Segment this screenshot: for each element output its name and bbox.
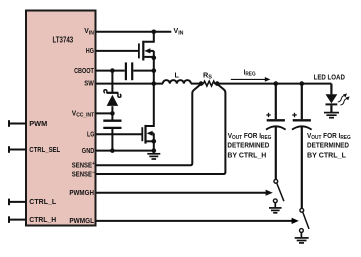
capacitor C1 bootstrap CBOOT cap [126,62,154,80]
node output cap 2 junction dot [300,81,305,86]
node VIN junction dot [152,30,157,35]
svg-text:BY CTRL_H: BY CTRL_H [227,151,266,160]
node CBOOT-diode junction dot [110,68,115,73]
node output cap 1 junction dot [274,81,279,86]
wire SW pin to inductor [96,83,164,85]
svg-text:DETERMINED: DETERMINED [307,141,350,150]
wire VCC_INT pin [96,112,113,114]
capacitor C2 VCC_INT bypass [103,113,121,150]
wire RS to output rail [217,83,331,85]
wire GND pin [96,150,154,152]
annotation VOUT FOR IREG DETERMINED BY CTRL_H [227,131,271,160]
capacitor C4 output cap (CTRL_L) [292,84,312,209]
svg-text:LG: LG [87,130,95,139]
wire SENSE+ kelvin [96,85,201,166]
svg-text:DETERMINED: DETERMINED [227,141,270,150]
svg-text:LT3743: LT3743 [53,36,74,45]
LED light emission arrows [337,92,349,103]
node C2-GND junction dot [110,148,115,153]
wire HG pin to Q1 gate [96,50,139,52]
svg-text:CTRL_H: CTRL_H [29,215,56,224]
wire LG pin to Q2 gate (crosses C2 leg) [96,133,142,135]
diode D1 bootstrap schottky [104,90,121,114]
wire CTRL_SEL input stub with tick [8,146,26,153]
switch S1 (PWMGH) [273,179,284,202]
wire CBOOT pin to capacitor C1 [96,70,125,72]
inductor L [163,80,191,84]
polarity + for C3 [266,113,270,117]
node SW junction dot [152,81,157,86]
wire PWMGL control arrow [96,218,299,224]
svg-text:PWMGH: PWMGH [69,188,94,197]
switch S2 (PWMGL) [300,208,310,232]
svg-text:BY CTRL_L: BY CTRL_L [307,151,346,160]
op-amp U1 LT3743 controller block [26,11,96,226]
node RS left kelvin dot [199,81,204,86]
svg-text:GND: GND [82,146,95,155]
node GND junction dot [152,148,157,153]
svg-text:CTRL_L: CTRL_L [29,197,56,206]
current arrow IREG [231,67,271,81]
node CBOOT rail junction dot [152,68,157,73]
svg-text:PWMGL: PWMGL [69,216,94,225]
svg-text:L: L [175,71,180,80]
ground G2 under LED [324,113,339,118]
svg-text:CTRL_SEL: CTRL_SEL [29,145,60,154]
wire SENSE- kelvin [96,85,226,174]
svg-text:CBOOT: CBOOT [74,66,94,75]
node VCC_INT junction dot [110,111,115,116]
wire VIN pin to VIN net [96,31,172,33]
svg-text:SW: SW [84,79,94,88]
svg-text:PWM: PWM [29,119,47,128]
node Q1 source junction dot [152,55,157,60]
ground G4 under switch S2 [295,232,309,243]
wire bootstrap vertical CBOOT to diode (crosses SW) [111,71,113,92]
wire inductor to RS [191,83,201,85]
svg-text:SENSE−: SENSE− [72,169,95,178]
wire output rail corner down to LED [330,84,332,95]
node RS right kelvin dot [215,81,220,86]
LED D2 [326,94,338,112]
wire CTRL_H input stub with tick [8,216,26,223]
ground G3 under switch S1 [269,203,282,213]
resistor RS [201,81,217,86]
capacitor C3 output cap (CTRL_H) [266,84,286,180]
wire PWM input stub with tick [8,120,26,127]
ground G1 near IC [147,151,160,159]
annotation VOUT FOR IREG DETERMINED BY CTRL_L [307,131,351,160]
transistor Q1 high-side NMOS [139,32,154,84]
wire CTRL_L input stub with tick [8,199,26,206]
svg-text:SENSE+: SENSE+ [72,160,95,169]
node Q2 source junction dot [152,139,157,144]
svg-text:HG: HG [86,46,95,55]
transistor Q2 low-side NMOS [142,84,154,151]
wire PWMGH control arrow [96,190,273,196]
polarity + for C4 [292,113,296,117]
svg-text:LED LOAD: LED LOAD [314,73,345,82]
